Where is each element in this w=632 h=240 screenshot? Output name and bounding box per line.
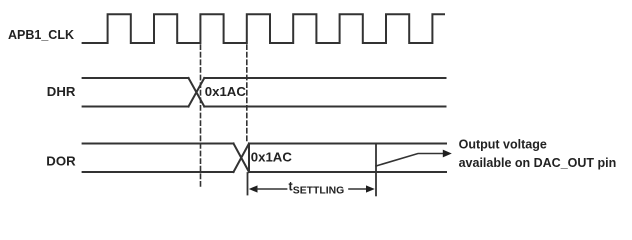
wire output settle vertical marker	[375, 144, 377, 196]
svg-text:DOR: DOR	[46, 154, 76, 169]
svg-text:Output voltage: Output voltage	[459, 138, 547, 152]
node tSETTLING right arrowhead	[366, 185, 375, 192]
svg-text:APB1_CLK: APB1_CLK	[8, 28, 74, 42]
svg-text:SETTLING: SETTLING	[293, 185, 344, 196]
node dashed line 2 (DOR update clock edge)	[246, 45, 248, 144]
wire APB1_CLK clock waveform	[83, 14, 444, 43]
wire DHR bus top line	[83, 77, 446, 79]
wire DOR bus top line	[83, 143, 446, 145]
node DHR crossover X	[189, 78, 205, 107]
wire tSETTLING dimension line right	[349, 188, 367, 190]
svg-text:0x1AC: 0x1AC	[251, 149, 293, 164]
node DOR crossover X	[234, 144, 250, 173]
svg-text:0x1AC: 0x1AC	[205, 84, 247, 99]
wire tSETTLING left vertical marker	[247, 173, 249, 195]
node output arrowhead	[443, 150, 452, 158]
wire DOR bus bottom line	[83, 171, 446, 173]
wire DOR box left vertical edge	[248, 144, 250, 173]
wire output voltage ramp	[376, 154, 444, 167]
node dashed line 1 (DHR write clock edge)	[200, 45, 202, 186]
svg-text:DHR: DHR	[47, 84, 76, 99]
node tSETTLING left arrowhead	[249, 185, 258, 192]
wire DHR bus bottom line	[83, 106, 446, 108]
svg-text:available on DAC_OUT pin: available on DAC_OUT pin	[459, 156, 617, 170]
wire tSETTLING dimension line left	[257, 188, 287, 190]
